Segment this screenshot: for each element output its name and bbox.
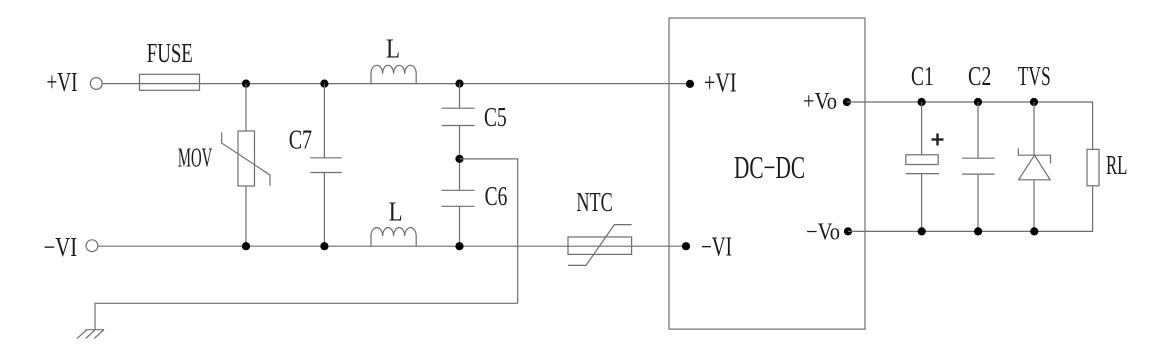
wire MOV branch upper <box>245 84 247 131</box>
thermistor NTC diagonal <box>568 225 632 266</box>
node junction C2 bottom <box>974 227 982 235</box>
svg-text:NTC: NTC <box>576 187 612 217</box>
fuse FUSE <box>140 74 200 90</box>
wire top output rail <box>847 102 1093 149</box>
node junction MOV top <box>242 80 250 88</box>
svg-text:+Vo: +Vo <box>803 89 837 115</box>
varistor MOV diagonal <box>222 133 270 186</box>
pin dot -VI <box>682 242 690 250</box>
node junction TVS top <box>1030 98 1038 106</box>
wire midpoint tap to ground right segment <box>460 159 518 303</box>
svg-text:+VI: +VI <box>47 67 78 97</box>
svg-text:DC−DC: DC−DC <box>734 149 805 185</box>
DC-DC converter block U1 <box>669 18 865 329</box>
svg-text:−Vo: −Vo <box>806 219 840 245</box>
ground wire horizontal <box>95 303 518 329</box>
varistor MOV body <box>238 131 255 186</box>
node junction C1 bottom <box>918 227 926 235</box>
pin dot -Vo <box>844 227 852 235</box>
diode TVS triangle <box>1019 155 1051 180</box>
svg-text:C2: C2 <box>968 61 991 91</box>
svg-text:FUSE: FUSE <box>147 38 193 68</box>
node junction C2 top <box>974 98 982 106</box>
svg-text:RL: RL <box>1106 150 1127 180</box>
wire C5 branch upper <box>459 84 461 109</box>
pin dot +VI <box>686 80 694 88</box>
wire C7 branch upper <box>323 84 325 158</box>
wire C2 branch lower <box>977 174 979 231</box>
svg-text:MOV: MOV <box>178 142 213 172</box>
wire top input rail <box>102 83 690 85</box>
svg-text:TVS: TVS <box>1018 61 1051 91</box>
resistor RL <box>1087 149 1099 185</box>
svg-text:C1: C1 <box>911 61 934 91</box>
wire C2 branch upper <box>977 102 979 158</box>
node junction C1 top <box>918 98 926 106</box>
wire MOV branch lower <box>245 186 247 246</box>
svg-text:C5: C5 <box>484 102 507 132</box>
inductor L bottom <box>371 228 416 247</box>
terminal circle +VI <box>90 78 102 90</box>
svg-text:C7: C7 <box>289 125 312 155</box>
wire bottom output rail <box>848 186 1093 232</box>
pin dot +Vo <box>843 98 851 106</box>
capacitor C5 <box>442 108 475 125</box>
capacitor C7 <box>310 158 341 173</box>
capacitor C6 <box>442 190 475 206</box>
node junction C6 bottom <box>455 242 463 250</box>
wire C7 branch lower <box>323 173 325 247</box>
wire bottom input rail <box>98 245 686 247</box>
svg-text:L: L <box>389 197 403 227</box>
node junction C7 top <box>320 80 328 88</box>
svg-text:−VI: −VI <box>44 232 78 262</box>
node junction TVS bottom <box>1030 227 1038 235</box>
wire TVS branch upper <box>1033 102 1035 155</box>
node junction MOV bottom <box>242 242 250 250</box>
svg-text:L: L <box>386 34 400 64</box>
inductor L top <box>371 65 416 84</box>
capacitor C1 polarity plus <box>932 134 944 146</box>
wire C1 branch upper <box>921 102 923 155</box>
capacitor C2 <box>962 158 995 174</box>
diode TVS zener cathode bar <box>1018 148 1050 163</box>
node junction C5 top <box>455 80 463 88</box>
wire C5 C6 middle <box>459 126 461 191</box>
svg-text:+VI: +VI <box>704 68 737 98</box>
capacitor C1 electrolytic <box>906 155 939 174</box>
svg-text:C6: C6 <box>485 181 508 211</box>
node junction C7 bottom <box>320 242 328 250</box>
node junction C5 C6 midpoint <box>455 155 463 163</box>
ground symbol <box>77 330 104 339</box>
svg-text:−VI: −VI <box>701 232 732 262</box>
wire TVS branch lower <box>1033 180 1035 232</box>
thermistor NTC body <box>568 237 632 254</box>
wire C1 branch lower <box>921 174 923 232</box>
wire C6 branch lower <box>459 206 461 246</box>
terminal circle -VI <box>86 240 98 252</box>
